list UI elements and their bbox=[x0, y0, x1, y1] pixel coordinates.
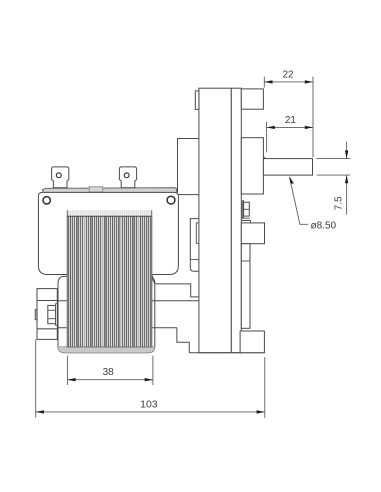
cover strip divider bbox=[241, 260, 250, 262]
dim 7.5 upper extension bbox=[317, 158, 351, 160]
svg-text:ø8.50: ø8.50 bbox=[311, 220, 337, 231]
spade terminal T1 bbox=[52, 167, 69, 188]
gearbox terminal blocks bbox=[244, 202, 250, 216]
terminal T2 hole bbox=[124, 173, 129, 178]
terminal T1 hole bbox=[56, 173, 61, 178]
stator lamination fins: light top band bbox=[67, 210, 152, 216]
rear shaft bump bbox=[35, 310, 37, 320]
dim 22 extension left bbox=[263, 77, 265, 88]
step lines below terminals bbox=[241, 217, 250, 219]
dim 38 line bbox=[67, 379, 152, 381]
dim 21 line bbox=[267, 126, 313, 128]
lower boss block C bbox=[241, 223, 264, 244]
gearbox front plate bbox=[231, 88, 241, 353]
arrowhead 22 left bbox=[264, 80, 272, 83]
arrowhead 38 right bbox=[145, 378, 153, 381]
dim 103 line bbox=[36, 411, 265, 413]
screw hole right bbox=[167, 196, 175, 204]
arrowhead 22 right bbox=[305, 80, 313, 83]
dim 21 extension left bbox=[266, 122, 268, 153]
dim 7.5 lower tail bbox=[346, 176, 348, 215]
screw hole left bbox=[43, 197, 50, 204]
gearbox terminal bar bbox=[242, 201, 243, 218]
motor rear column (mount to gearbox) bbox=[178, 139, 199, 193]
slot divider bbox=[190, 259, 199, 261]
arrowhead 103 left bbox=[36, 410, 44, 413]
winding edge step right bbox=[152, 275, 199, 297]
fins left edge bbox=[66, 210, 68, 347]
bobbin bottom flange (gray band) bbox=[58, 346, 155, 353]
slot inner rib bbox=[196, 223, 199, 244]
fins top edge bbox=[67, 215, 152, 217]
arrowhead 103 right bbox=[257, 410, 265, 413]
arrowhead 7.5 down bbox=[345, 150, 348, 158]
dim 103 extension right bbox=[264, 357, 266, 418]
svg-text:38: 38 bbox=[103, 367, 115, 378]
rear shaft nut bbox=[48, 305, 56, 323]
dim 7.5 upper tail bbox=[346, 142, 348, 158]
dim 103 extension left bbox=[35, 339, 37, 417]
mount slot window bbox=[190, 219, 199, 272]
arrowhead 7.5 up bbox=[345, 175, 348, 183]
shaft root fillet bbox=[263, 156, 267, 159]
lamination fins block bbox=[67, 216, 152, 347]
dim 38 extension left bbox=[66, 356, 68, 385]
arrowhead 21 left bbox=[267, 126, 275, 129]
motor front bracket (end shield) bbox=[38, 192, 178, 274]
dim 22 extension right / shaft end bbox=[312, 77, 314, 158]
motor top cover plate strip bbox=[42, 188, 177, 193]
cover strip protrusion bbox=[241, 244, 250, 329]
bearing housing block B bbox=[241, 138, 263, 194]
dim 22 line bbox=[264, 81, 313, 83]
motor right ledge line bbox=[177, 194, 199, 196]
rear boss bracket middle bbox=[37, 301, 57, 329]
dim 38 extension right bbox=[152, 356, 154, 385]
stator long line lower bbox=[57, 300, 199, 302]
svg-text:103: 103 bbox=[140, 399, 158, 411]
fins right edge bbox=[151, 210, 153, 347]
svg-text:21: 21 bbox=[285, 115, 297, 126]
stator long line bottom bbox=[57, 327, 177, 329]
gearbox top boss block A bbox=[241, 89, 263, 109]
coil bobbin body bbox=[58, 276, 155, 353]
spade terminal T2 bbox=[119, 167, 136, 188]
rear boss bracket bottom bbox=[37, 329, 57, 340]
small tab on top plate bbox=[89, 187, 103, 192]
motor foot staircase bbox=[177, 328, 189, 353]
gearbox bottom edge bbox=[189, 352, 264, 354]
leader line diameter bbox=[290, 178, 309, 225]
rear shaft nut washer bbox=[56, 304, 58, 325]
rear boss bracket top bbox=[37, 289, 57, 301]
output shaft bbox=[263, 159, 312, 176]
dim 7.5 lower extension bbox=[317, 174, 351, 176]
nut flat line lower bbox=[48, 318, 56, 320]
terminal blocks divider bbox=[244, 208, 250, 210]
arrowhead diameter leader bbox=[289, 176, 294, 184]
gearbox top-left step bbox=[195, 91, 199, 110]
arrowhead 38 left bbox=[67, 378, 75, 381]
fins bottom edge bbox=[67, 346, 152, 348]
nut flat line upper bbox=[48, 309, 56, 311]
svg-text:7.5: 7.5 bbox=[334, 196, 345, 210]
bottom boss block D bbox=[240, 331, 264, 353]
svg-text:22: 22 bbox=[282, 70, 294, 81]
arrowhead 21 right bbox=[305, 126, 313, 129]
gearbox main plate bbox=[199, 88, 231, 353]
